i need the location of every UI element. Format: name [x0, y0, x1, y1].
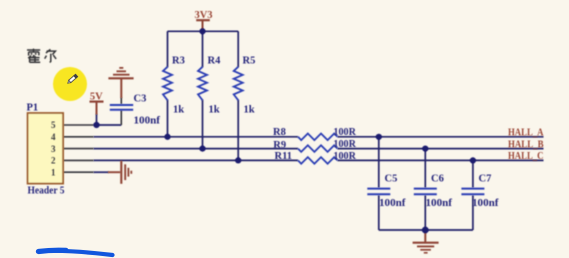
svg-text:R8: R8: [273, 127, 286, 138]
svg-text:3V3: 3V3: [194, 10, 212, 21]
svg-text:100R: 100R: [333, 151, 356, 162]
svg-text:1k: 1k: [244, 105, 255, 116]
svg-text:C6: C6: [431, 174, 444, 185]
svg-text:5: 5: [51, 120, 56, 130]
svg-text:100nf: 100nf: [379, 198, 406, 209]
svg-text:HALL_C: HALL_C: [508, 151, 544, 162]
svg-text:R9: R9: [273, 140, 286, 151]
svg-text:5V: 5V: [90, 92, 103, 103]
svg-text:4: 4: [51, 132, 56, 142]
svg-text:100R: 100R: [333, 139, 356, 150]
svg-text:Header 5: Header 5: [28, 186, 65, 197]
svg-text:100R: 100R: [333, 127, 356, 138]
svg-text:P1: P1: [27, 103, 39, 114]
svg-text:100nf: 100nf: [426, 198, 453, 209]
svg-text:1k: 1k: [173, 105, 184, 116]
svg-text:HALL_A: HALL_A: [508, 127, 544, 138]
svg-text:100nf: 100nf: [472, 198, 499, 209]
svg-text:R11: R11: [275, 151, 293, 162]
svg-text:C5: C5: [385, 174, 398, 185]
svg-text:2: 2: [51, 156, 56, 166]
svg-text:HALL_B: HALL_B: [508, 139, 544, 150]
svg-text:100nf: 100nf: [134, 116, 161, 127]
svg-text:3: 3: [51, 144, 56, 154]
svg-text:C3: C3: [134, 94, 147, 105]
svg-text:R4: R4: [208, 56, 222, 67]
svg-text:R3: R3: [172, 56, 185, 67]
svg-text:1: 1: [51, 167, 56, 177]
svg-text:1k: 1k: [209, 105, 220, 116]
svg-text:C7: C7: [479, 174, 492, 185]
svg-text:R5: R5: [243, 56, 256, 67]
